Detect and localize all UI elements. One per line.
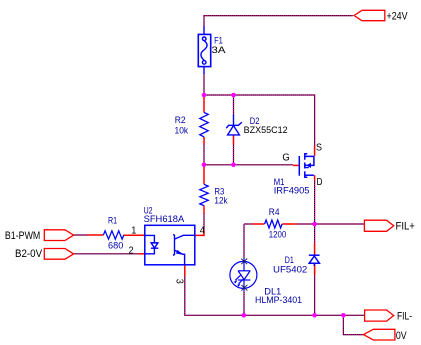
svg-text:3A: 3A bbox=[212, 45, 227, 56]
svg-text:R4: R4 bbox=[269, 207, 280, 218]
svg-text:R2: R2 bbox=[175, 115, 186, 126]
svg-text:FIL+: FIL+ bbox=[396, 220, 415, 232]
svg-text:0V: 0V bbox=[396, 330, 407, 342]
svg-text:3: 3 bbox=[174, 279, 185, 285]
svg-text:D: D bbox=[317, 177, 323, 188]
svg-text:2: 2 bbox=[129, 246, 135, 257]
svg-text:4: 4 bbox=[200, 225, 206, 236]
svg-text:10k: 10k bbox=[175, 126, 189, 137]
svg-text:IRF4905: IRF4905 bbox=[274, 185, 310, 196]
svg-text:UF5402: UF5402 bbox=[273, 265, 307, 276]
svg-text:S: S bbox=[316, 142, 322, 153]
svg-text:HLMP-3401: HLMP-3401 bbox=[255, 295, 302, 306]
svg-text:12k: 12k bbox=[214, 196, 227, 207]
svg-text:B2-0V: B2-0V bbox=[15, 248, 43, 260]
svg-text:1: 1 bbox=[131, 225, 137, 236]
svg-text:BZX55C12: BZX55C12 bbox=[244, 125, 288, 136]
svg-text:SFH618A: SFH618A bbox=[144, 214, 185, 225]
svg-text:R1: R1 bbox=[108, 216, 117, 227]
svg-text:680: 680 bbox=[108, 241, 123, 252]
svg-text:B1-PWM: B1-PWM bbox=[5, 230, 40, 242]
svg-text:+24V: +24V bbox=[387, 10, 409, 22]
svg-text:FIL-: FIL- bbox=[397, 310, 412, 322]
svg-text:G: G bbox=[282, 152, 290, 163]
svg-text:1200: 1200 bbox=[269, 230, 287, 241]
